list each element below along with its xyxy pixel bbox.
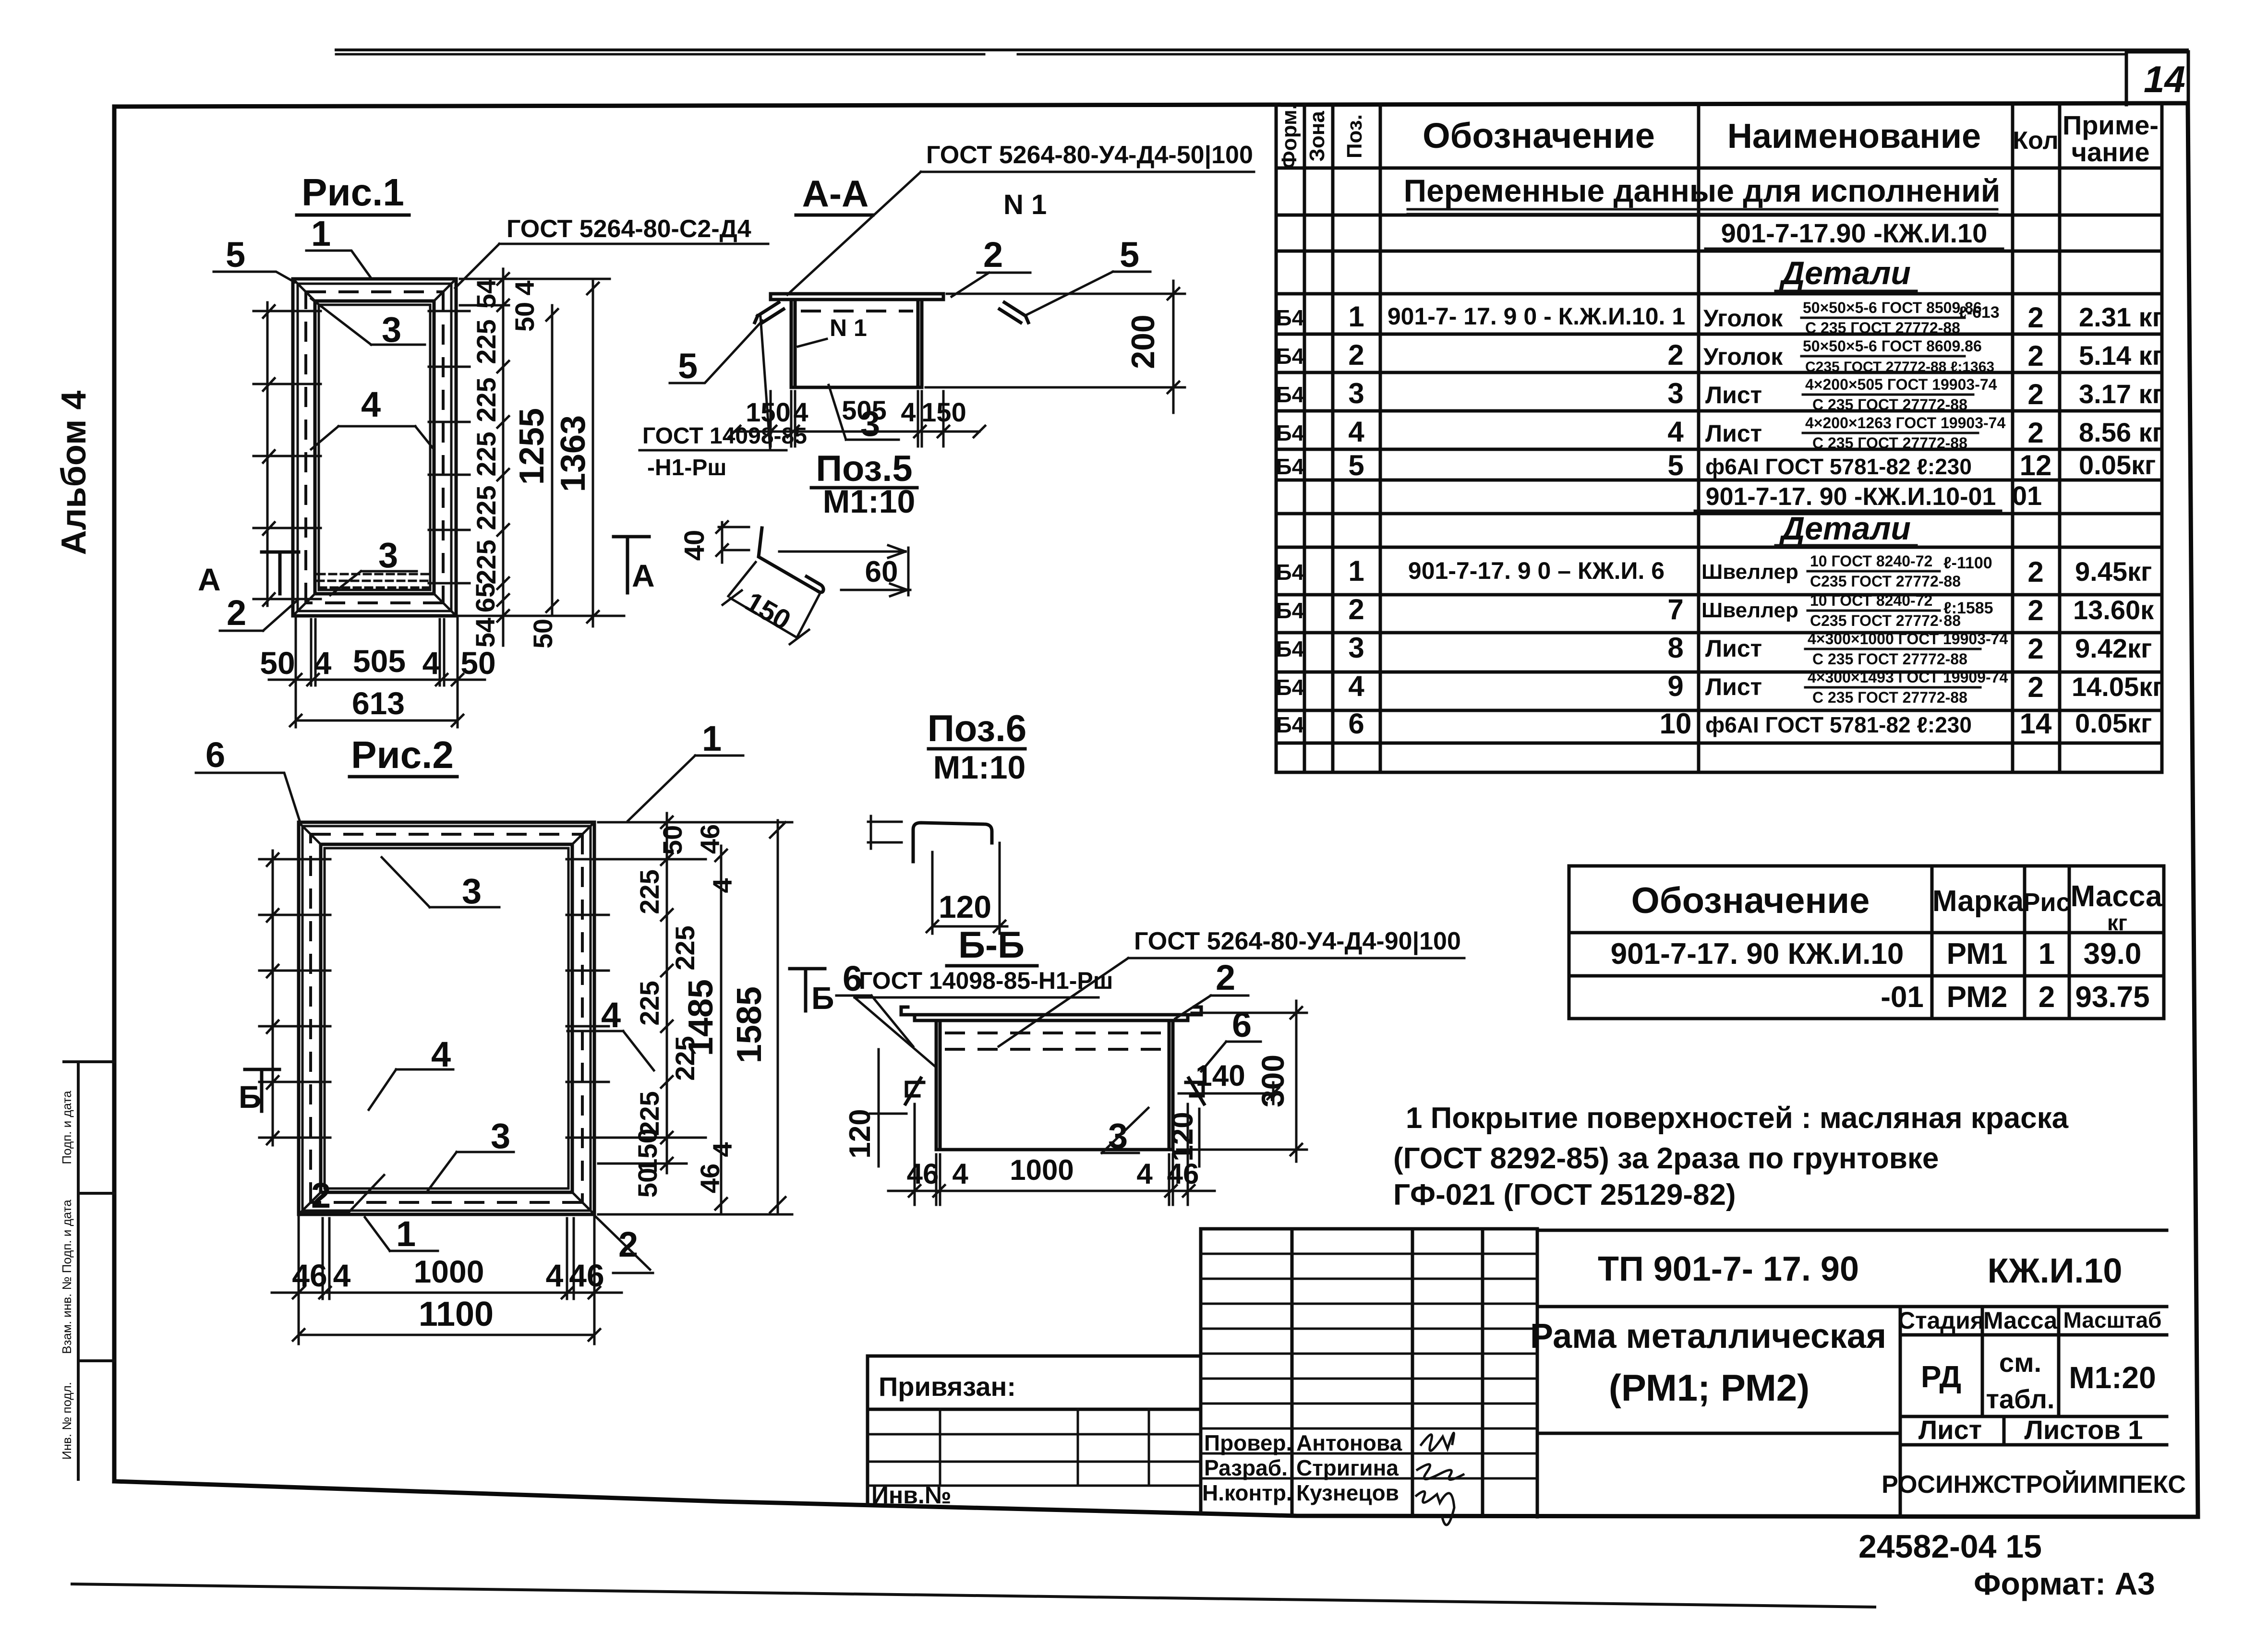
svg-text:2: 2	[2027, 594, 2043, 626]
svg-text:Инв. № подл.: Инв. № подл.	[60, 1382, 74, 1460]
svg-text:14: 14	[2144, 58, 2185, 100]
svg-text:М1:10: М1:10	[933, 749, 1026, 786]
section mark A left	[198, 552, 299, 597]
label 1 fig2 top	[628, 719, 743, 821]
svg-text:РОСИНЖСТРОЙИМПЕКС: РОСИНЖСТРОЙИМПЕКС	[1882, 1470, 2186, 1499]
svg-text:см.: см.	[1999, 1347, 2041, 1378]
svg-text:2: 2	[618, 1224, 638, 1264]
svg-text:1000: 1000	[414, 1254, 484, 1289]
svg-text:2: 2	[2027, 340, 2043, 372]
label 2 BB	[1175, 958, 1248, 1019]
dim 120 BB right	[1166, 1109, 1199, 1166]
svg-text:Взам. инв. № Подп. и дата: Взам. инв. № Подп. и дата	[60, 1200, 74, 1354]
svg-text:Альбом 4: Альбом 4	[55, 391, 93, 555]
svg-text:200: 200	[1125, 314, 1161, 369]
svg-text:1: 1	[702, 719, 722, 758]
svg-text:5.14 кг: 5.14 кг	[2079, 340, 2163, 371]
fig1 bottom dims	[269, 616, 485, 727]
svg-text:50: 50	[528, 619, 558, 648]
fig1 dim texts 50 4 505 4 50	[260, 643, 495, 681]
clip right A-A	[1000, 302, 1028, 323]
titleblock name	[1530, 1317, 1886, 1409]
svg-text:РД: РД	[1921, 1359, 1961, 1394]
svg-text:ГОСТ 5264-80-У4-Д4-90|100: ГОСТ 5264-80-У4-Д4-90|100	[1134, 927, 1461, 955]
svg-text:225: 225	[670, 925, 700, 970]
label 1 fig2 bottom	[365, 1214, 438, 1254]
label N1 inner	[798, 314, 867, 347]
svg-text:Б4: Б4	[1276, 454, 1304, 479]
svg-text:1: 1	[396, 1214, 416, 1254]
svg-text:Масштаб: Масштаб	[2063, 1308, 2162, 1332]
svg-text:2: 2	[1667, 339, 1683, 371]
label 2 section AA	[952, 235, 1030, 297]
svg-text:Лист: Лист	[1705, 382, 1762, 408]
gost 5264 u4 90 annotation	[999, 927, 1464, 1046]
svg-text:4: 4	[546, 1258, 564, 1293]
svg-text:613: 613	[352, 685, 405, 721]
privyazan block	[868, 1356, 1201, 1509]
figure 1 frame outer	[293, 279, 456, 616]
gost 14098 annotation BB	[855, 967, 1113, 1067]
svg-text:Б: Б	[239, 1079, 261, 1115]
svg-text:кг: кг	[2107, 910, 2127, 935]
svg-text:4×300×1493 ГОСТ 19909-74: 4×300×1493 ГОСТ 19909-74	[1808, 669, 2008, 686]
pos6 dim 40	[679, 521, 749, 563]
svg-text:225: 225	[471, 377, 501, 422]
label 6 fig2	[196, 735, 301, 824]
svg-text:Поз.: Поз.	[1343, 114, 1366, 158]
svg-text:А-А: А-А	[802, 172, 869, 215]
svg-text:Детали: Детали	[1779, 255, 1911, 291]
svg-text:Б4: Б4	[1276, 598, 1304, 623]
svg-text:93.75: 93.75	[2075, 981, 2149, 1014]
spec row kji10-01	[1695, 480, 2042, 511]
svg-text:12: 12	[2020, 449, 2052, 481]
dim 120 BB left	[844, 1049, 906, 1166]
svg-text:50: 50	[460, 645, 495, 681]
svg-text:N 1: N 1	[830, 314, 867, 341]
svg-text:46: 46	[1167, 1158, 1199, 1190]
svg-text:Б4: Б4	[1276, 382, 1304, 407]
paper top edge line	[336, 50, 2187, 54]
fig1 right dim chain 225	[460, 269, 624, 646]
svg-text:С235 ГОСТ 27772·88: С235 ГОСТ 27772·88	[1810, 612, 1961, 629]
svg-text:505: 505	[842, 395, 886, 425]
svg-text:4: 4	[901, 397, 916, 427]
svg-text:2: 2	[227, 593, 246, 633]
svg-text:1: 1	[1348, 555, 1364, 587]
label 4 fig2 right	[567, 995, 654, 1070]
svg-text:Обозначение: Обозначение	[1631, 880, 1870, 921]
figure 1 caption	[297, 171, 409, 215]
left margin strip	[60, 1062, 114, 1479]
BB dim texts	[907, 1154, 1199, 1190]
svg-text:3: 3	[1348, 632, 1364, 664]
figure 1 weld texture bottom	[317, 574, 432, 588]
svg-text:-Н1-Рш: -Н1-Рш	[647, 455, 726, 480]
svg-text:2: 2	[2027, 417, 2043, 449]
svg-text:С 235 ГОСТ 27772-88: С 235 ГОСТ 27772-88	[1812, 396, 1967, 413]
sheet number box 14	[2126, 52, 2188, 105]
spec data row 6	[1276, 552, 2152, 590]
fig2 bottom dims	[272, 1214, 622, 1344]
svg-text:46: 46	[569, 1258, 604, 1293]
svg-text:Кол: Кол	[2013, 127, 2058, 155]
section B-B caption	[947, 924, 1037, 966]
pos6 caption	[928, 707, 1027, 786]
svg-text:Стадия: Стадия	[1898, 1307, 1984, 1334]
svg-text:А: А	[632, 558, 655, 593]
figure 2 caption	[350, 733, 457, 777]
svg-text:Провер.: Провер.	[1204, 1430, 1292, 1455]
svg-text:901-7-17. 90 -КЖ.И.10-01: 901-7-17. 90 -КЖ.И.10-01	[1706, 483, 1996, 511]
spec row details2	[1775, 510, 1917, 547]
svg-text:Разраб.: Разраб.	[1204, 1455, 1288, 1480]
section mark A right	[614, 537, 655, 593]
spec row details1	[1775, 255, 1917, 291]
svg-text:14: 14	[2020, 708, 2052, 740]
svg-text:2: 2	[1216, 958, 1235, 997]
dim 200	[926, 281, 1185, 413]
svg-text:Лист: Лист	[1918, 1415, 1982, 1445]
titleblock stage cells	[1882, 1307, 2186, 1499]
svg-text:ГОСТ 14098-85-Н1-Рш: ГОСТ 14098-85-Н1-Рш	[859, 967, 1113, 994]
svg-text:50: 50	[260, 645, 295, 681]
svg-text:225: 225	[471, 432, 501, 476]
fig2 dim 1485	[682, 846, 727, 1213]
dim 300 BB	[1177, 1001, 1307, 1162]
svg-text:РМ2: РМ2	[1947, 981, 2008, 1014]
svg-text:1: 1	[311, 214, 331, 253]
svg-text:Б4: Б4	[1276, 675, 1304, 700]
svg-text:225: 225	[471, 319, 501, 364]
titleblock org grid	[1201, 1229, 1537, 1517]
svg-text:(ГОСТ 8292-85) за 2раза по г: (ГОСТ 8292-85) за 2раза по грунтовке	[1393, 1142, 1939, 1175]
svg-text:2: 2	[2027, 556, 2043, 588]
svg-text:Марка: Марка	[1932, 885, 2024, 918]
svg-text:чание: чание	[2071, 137, 2149, 167]
svg-text:4: 4	[1348, 670, 1364, 702]
svg-text:46: 46	[907, 1158, 939, 1190]
section A-A caption	[796, 172, 873, 215]
svg-text:С235 ГОСТ 27772-88 ℓ:1363: С235 ГОСТ 27772-88 ℓ:1363	[1805, 359, 1994, 375]
svg-text:2: 2	[1348, 593, 1364, 625]
svg-text:7: 7	[1667, 593, 1683, 625]
svg-text:ф6АI ГОСТ 5781-82 ℓ:230: ф6АI ГОСТ 5781-82 ℓ:230	[1705, 712, 1972, 737]
svg-text:Швеллер: Швеллер	[1701, 560, 1798, 584]
fig2 right chain ticks	[598, 813, 792, 1214]
svg-text:50: 50	[509, 302, 540, 332]
svg-text:2: 2	[2027, 671, 2043, 703]
svg-text:Рис.1: Рис.1	[302, 171, 404, 214]
svg-text:5: 5	[678, 346, 698, 386]
gost 5264 u4 50 annotation	[787, 141, 1254, 295]
svg-text:1485: 1485	[682, 979, 720, 1056]
svg-text:Масса: Масса	[2070, 880, 2162, 913]
gost 5264 c2 annotation	[455, 215, 768, 288]
marks table grid	[1569, 866, 2164, 1019]
svg-text:24582-04 15: 24582-04 15	[1858, 1528, 2042, 1565]
svg-text:225: 225	[471, 540, 501, 584]
section A-A body	[771, 294, 943, 387]
svg-text:5: 5	[1667, 449, 1683, 481]
titleblock doc number	[1598, 1250, 2122, 1290]
B-B bottom clip right	[1186, 1078, 1204, 1104]
svg-text:2: 2	[983, 235, 1003, 275]
svg-text:39.0: 39.0	[2084, 937, 2142, 971]
spec data row 8	[1276, 630, 2152, 668]
titleblock main area	[1537, 1230, 2167, 1517]
svg-text:КЖ.И.10: КЖ.И.10	[1988, 1252, 2123, 1290]
svg-text:4: 4	[509, 280, 540, 295]
drawing frame border	[114, 103, 2198, 1517]
svg-text:Антонова: Антонова	[1296, 1430, 1402, 1455]
fig1 chain labels	[470, 279, 558, 648]
svg-text:4×200×505 ГОСТ 19903-74: 4×200×505 ГОСТ 19903-74	[1805, 376, 1997, 393]
label 1 fig1	[306, 214, 371, 277]
spec data row 5	[1276, 449, 2156, 481]
svg-text:Б-Б: Б-Б	[958, 924, 1025, 966]
svg-text:3: 3	[1348, 377, 1364, 409]
section mark B left	[239, 1069, 279, 1115]
svg-text:1363: 1363	[554, 415, 592, 492]
svg-text:1 Покрытие поверхностей : ма: 1 Покрытие поверхностей : масляная краск…	[1406, 1102, 2069, 1135]
svg-text:Наименование: Наименование	[1727, 117, 1981, 156]
svg-text:9.45кг: 9.45кг	[2075, 556, 2152, 587]
spec row variable data	[1404, 173, 2001, 214]
svg-text:2.31 кг: 2.31 кг	[2079, 302, 2163, 332]
svg-text:М1:10: М1:10	[823, 483, 916, 520]
svg-text:6: 6	[1232, 1005, 1252, 1044]
svg-text:140: 140	[1195, 1059, 1245, 1092]
spec data row 9	[1276, 669, 2164, 706]
svg-text:С235 ГОСТ 27772-88: С235 ГОСТ 27772-88	[1810, 573, 1961, 590]
svg-text:ТП 901-7- 17. 90: ТП 901-7- 17. 90	[1598, 1250, 1859, 1288]
svg-text:С 235 ГОСТ 27772-88: С 235 ГОСТ 27772-88	[1812, 689, 1967, 706]
svg-text:901-7-17.90 -КЖ.И.10: 901-7-17.90 -КЖ.И.10	[1721, 218, 1988, 248]
svg-text:1100: 1100	[419, 1295, 494, 1333]
label 3 fig2 bottom	[427, 1116, 514, 1191]
svg-text:3: 3	[491, 1116, 510, 1156]
svg-text:4: 4	[314, 645, 332, 681]
label 2 fig2 left	[302, 1175, 384, 1215]
pos6 bent plate	[759, 528, 823, 592]
svg-text:54: 54	[470, 618, 500, 648]
spec row kji10	[1705, 218, 2003, 249]
svg-text:Б4: Б4	[1276, 712, 1304, 737]
svg-text:-01: -01	[1881, 981, 1924, 1014]
svg-text:Б: Б	[811, 980, 834, 1016]
svg-text:14.05кг: 14.05кг	[2072, 672, 2164, 702]
figure 2 weld ticks right	[567, 859, 609, 1138]
label 6 BB right	[1201, 1005, 1261, 1071]
svg-text:60: 60	[865, 555, 898, 588]
svg-text:4: 4	[1667, 416, 1684, 448]
figure 2 frame outer	[299, 822, 594, 1214]
figure 2 weld ticks left	[259, 851, 330, 1145]
svg-text:Обозначение: Обозначение	[1423, 116, 1655, 156]
spec table headers	[1278, 104, 2159, 169]
spec data row 4	[1276, 414, 2163, 452]
svg-text:4: 4	[1136, 1158, 1153, 1190]
svg-text:Кузнецов: Кузнецов	[1296, 1480, 1399, 1505]
svg-text:М1:20: М1:20	[2069, 1360, 2156, 1395]
svg-text:ℓ:1585: ℓ:1585	[1943, 599, 1993, 617]
svg-text:3.17 кг: 3.17 кг	[2079, 379, 2163, 409]
svg-text:Переменные данные для исполнен: Переменные данные для исполнений	[1404, 173, 2001, 208]
svg-text:225: 225	[471, 485, 501, 530]
pos6 dim 60	[779, 545, 910, 596]
label 5 for clip	[670, 321, 762, 386]
svg-text:С 235 ГОСТ 27772-88: С 235 ГОСТ 27772-88	[1812, 434, 1967, 452]
svg-text:4×200×1263 ГОСТ 19903-74: 4×200×1263 ГОСТ 19903-74	[1805, 414, 2005, 432]
svg-text:9.42кг: 9.42кг	[2075, 633, 2152, 663]
svg-text:табл.: табл.	[1986, 1384, 2055, 1414]
pos5 caption	[811, 448, 917, 520]
svg-text:Зона: Зона	[1305, 111, 1329, 162]
svg-text:50×50×5-6 ГОСТ 8509.86: 50×50×5-6 ГОСТ 8509.86	[1803, 299, 1982, 316]
svg-text:2: 2	[2027, 301, 2043, 334]
svg-text:1: 1	[2039, 937, 2055, 971]
svg-text:Форм.: Форм.	[1278, 104, 1301, 169]
svg-text:901-7-17. 90 КЖ.И.10: 901-7-17. 90 КЖ.И.10	[1611, 937, 1904, 971]
svg-text:А: А	[198, 562, 221, 597]
svg-text:2: 2	[2039, 981, 2055, 1014]
svg-text:50×50×5-6 ГОСТ 8609.86: 50×50×5-6 ГОСТ 8609.86	[1803, 337, 1982, 355]
svg-text:40: 40	[679, 530, 710, 561]
svg-text:Рама металлическая: Рама металлическая	[1530, 1317, 1886, 1356]
svg-text:ГФ-021 (ГОСТ 25129-82): ГФ-021 (ГОСТ 25129-82)	[1393, 1178, 1736, 1212]
svg-text:Лист: Лист	[1705, 420, 1762, 447]
svg-text:01: 01	[2012, 480, 2042, 511]
pos6 dim 150	[723, 562, 820, 644]
svg-text:10 ГОСТ 8240-72: 10 ГОСТ 8240-72	[1810, 592, 1932, 609]
svg-text:4: 4	[601, 995, 621, 1035]
svg-text:6: 6	[1348, 708, 1364, 740]
svg-text:120: 120	[1166, 1112, 1199, 1161]
label 4 fig1	[311, 384, 433, 449]
marks table row pm2	[1881, 981, 2149, 1014]
svg-text:5: 5	[1348, 449, 1364, 481]
svg-text:Б4: Б4	[1276, 636, 1304, 661]
svg-text:4×300×1000 ГОСТ 19903-74: 4×300×1000 ГОСТ 19903-74	[1808, 630, 2008, 648]
label 3 fig2 top	[382, 857, 499, 911]
fig1 dim 1255	[513, 305, 558, 616]
svg-text:Инв.№: Инв.№	[871, 1482, 952, 1509]
marks table row pm1	[1611, 937, 2142, 971]
svg-text:Б4: Б4	[1276, 305, 1304, 330]
svg-text:Привязан:: Привязан:	[879, 1371, 1016, 1402]
svg-text:150: 150	[632, 1128, 663, 1173]
svg-text:Уголок: Уголок	[1703, 305, 1783, 332]
svg-text:50: 50	[657, 825, 688, 855]
svg-text:2: 2	[1348, 339, 1364, 371]
label 5 top-left	[214, 235, 295, 282]
svg-text:Рис: Рис	[2023, 888, 2070, 917]
svg-text:3: 3	[378, 535, 398, 575]
svg-text:С 235 ГОСТ 27772-88: С 235 ГОСТ 27772-88	[1812, 650, 1967, 668]
svg-text:6: 6	[205, 735, 225, 775]
svg-text:Лист: Лист	[1705, 673, 1762, 700]
spec data row 3	[1276, 376, 2163, 413]
svg-text:901-7-17. 9 0 – КЖ.И. 6: 901-7-17. 9 0 – КЖ.И. 6	[1408, 557, 1665, 584]
spec table grid	[1276, 104, 2162, 772]
svg-text:150: 150	[921, 397, 966, 427]
svg-text:46: 46	[292, 1258, 327, 1293]
label 2 fig2 right	[594, 1215, 653, 1273]
svg-text:8: 8	[1667, 632, 1683, 664]
spec data row 7	[1276, 592, 2154, 629]
label 3 fig1 bottom	[330, 535, 417, 595]
svg-text:5: 5	[1120, 235, 1139, 275]
figure 1 weld dashed line	[306, 292, 443, 603]
figure 2 weld dashed	[311, 834, 582, 1202]
svg-text:Поз.6: Поз.6	[928, 707, 1027, 749]
fig1 dim 613	[290, 685, 463, 726]
svg-text:3: 3	[462, 871, 482, 911]
label 2 fig1 bottom-left	[220, 593, 298, 633]
svg-text:9: 9	[1667, 670, 1683, 702]
label 6 BB left	[836, 959, 913, 1046]
B-B end hook right top	[1188, 1007, 1201, 1015]
svg-text:ГОСТ 5264-80-У4-Д4-50|100: ГОСТ 5264-80-У4-Д4-50|100	[926, 141, 1253, 169]
svg-text:0.05кг: 0.05кг	[2075, 708, 2152, 738]
spec data row 10	[1276, 708, 2152, 740]
svg-text:(РМ1; РМ2): (РМ1; РМ2)	[1609, 1367, 1810, 1409]
svg-text:N 1: N 1	[1003, 189, 1047, 220]
svg-text:901-7- 17. 9 0 - К.Ж.И.10. 1: 901-7- 17. 9 0 - К.Ж.И.10. 1	[1387, 303, 1685, 330]
svg-text:1: 1	[1348, 300, 1364, 333]
svg-text:4: 4	[361, 384, 381, 424]
B-B end hook left top	[901, 1007, 915, 1015]
svg-text:10: 10	[1660, 708, 1692, 740]
svg-text:Масса: Масса	[1983, 1307, 2058, 1334]
svg-text:Б4: Б4	[1276, 560, 1304, 585]
svg-text:Н.контр.: Н.контр.	[1202, 1480, 1292, 1505]
svg-text:8.56 кг: 8.56 кг	[2079, 417, 2163, 447]
svg-text:2: 2	[2027, 378, 2043, 410]
svg-text:Формат: А3: Формат: А3	[1974, 1566, 2155, 1601]
svg-text:Детали: Детали	[1779, 510, 1911, 547]
svg-text:2: 2	[2027, 633, 2043, 665]
label 3 BB	[1102, 1108, 1148, 1156]
svg-text:505: 505	[353, 643, 406, 679]
svg-text:120: 120	[939, 889, 991, 924]
bottom paper line	[72, 1584, 1875, 1607]
clip left A-A	[755, 302, 784, 323]
A-A bottom dims	[729, 391, 985, 446]
svg-text:0.05кг: 0.05кг	[2079, 450, 2156, 480]
fig2 dim 1585	[730, 820, 785, 1214]
fig2 chain labels	[632, 824, 737, 1198]
label 3 section AA	[829, 385, 899, 444]
svg-text:4: 4	[422, 645, 440, 681]
svg-text:225: 225	[634, 981, 664, 1025]
svg-text:2: 2	[311, 1176, 331, 1215]
fig1 dim 1363	[554, 279, 599, 626]
spec data row 1	[1276, 299, 2163, 336]
dim 140 BB	[1179, 1059, 1279, 1104]
A-A dim texts	[746, 395, 966, 427]
label 4 fig2 left	[369, 1034, 453, 1110]
svg-text:РМ1: РМ1	[1947, 937, 2008, 971]
svg-text:Подп. и дата: Подп. и дата	[60, 1091, 74, 1164]
svg-text:С 235 ГОСТ 27772-88: С 235 ГОСТ 27772-88	[1805, 319, 1960, 336]
svg-text:4: 4	[1348, 416, 1364, 448]
section B-B body	[915, 1015, 1188, 1150]
svg-text:65: 65	[470, 583, 500, 612]
titleblock signatures	[1202, 1430, 1463, 1525]
